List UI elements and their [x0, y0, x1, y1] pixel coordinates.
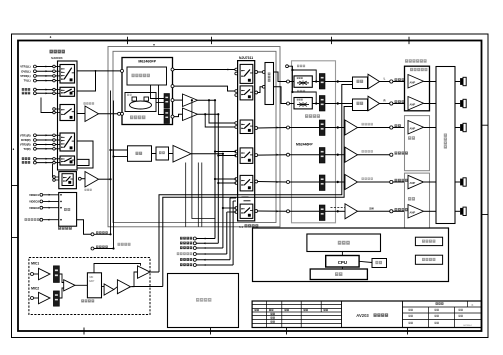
- svg-text:NJU7311: NJU7311: [239, 56, 253, 60]
- line amp op-amp: [368, 96, 380, 111]
- svg-text:AMP: AMP: [410, 103, 416, 107]
- wire riser 4 stub to SW6: [227, 211, 236, 213]
- electronic volume narrow box B inside M62460FP: [164, 109, 170, 124]
- CPU box: [326, 256, 359, 268]
- label pro-logic (Chinese): [132, 74, 150, 77]
- M62460FP output terminal 2: [171, 85, 174, 88]
- wire to SW4 upper: [215, 151, 236, 153]
- right margin fold mark: [482, 124, 489, 126]
- label spectrum analyzer: [422, 240, 435, 243]
- wire input to selector: [36, 134, 52, 136]
- output terminal: [390, 153, 393, 156]
- M62460FP output terminal 4: [171, 115, 174, 118]
- label electronic volume (Chinese gray): [305, 114, 320, 118]
- NJU7311 switch SW5: [240, 175, 253, 191]
- label matrix vertical: [268, 73, 271, 82]
- svg-text:VTR1(L): VTR1(L): [20, 65, 30, 69]
- label display (Chinese): [338, 241, 350, 245]
- remote receiver box: [415, 255, 442, 264]
- wire aux 4 to riser: [196, 253, 227, 255]
- wire to output terminal: [380, 103, 390, 105]
- wire mic2: [34, 297, 39, 299]
- bottom border centering tick: [286, 328, 288, 335]
- protection circuit box: [436, 67, 455, 224]
- delay BBD ellipse symbol: [130, 101, 152, 109]
- aux channel terminal 5: [180, 258, 192, 261]
- output label (Chinese): [395, 124, 401, 127]
- svg-text:MIC2: MIC2: [31, 286, 39, 290]
- svg-text:R: R: [383, 99, 385, 103]
- karaoke output op-amp: [138, 266, 151, 279]
- tone control box ch1: [294, 76, 312, 87]
- selector contact node: [53, 134, 56, 137]
- delay tap rect 1: [132, 97, 137, 101]
- aux channel terminal 1: [180, 237, 192, 240]
- title block left grid rows: [252, 304, 341, 306]
- tone glyph tiny text: [297, 99, 303, 101]
- display box: [307, 234, 381, 252]
- wire protection to speaker: [455, 181, 460, 183]
- wire vertical control line: [201, 163, 203, 227]
- top border centering tick: [408, 37, 410, 44]
- NJU7311 SW3 output terminal: [255, 127, 258, 130]
- label delay tiny: [127, 94, 132, 96]
- label monitor out: [96, 231, 108, 234]
- power supply box: [168, 274, 239, 328]
- top border centering tick: [211, 37, 213, 44]
- NJU7311 switch SW2: [240, 86, 253, 100]
- NJU7311 switch SW6: [240, 204, 253, 218]
- selector switch S6 outer box: [59, 172, 77, 189]
- wire U3b output to bus v2: [198, 113, 219, 115]
- tone control box ch2: [294, 98, 312, 109]
- node volume input ch3: [287, 126, 290, 129]
- svg-text:M62446FP: M62446FP: [296, 143, 313, 147]
- wire riser 6 stub: [233, 200, 236, 202]
- wire record-out vertical bus 2: [113, 101, 115, 249]
- op-amp buffer U2a: [77, 113, 85, 115]
- title block table: [252, 301, 481, 328]
- operate box: [372, 259, 387, 268]
- wire U4 output to bus v3: [191, 153, 223, 155]
- NJU7311 switch SW1: [240, 64, 253, 83]
- wire NJU SW6 to volume fader: [258, 210, 287, 212]
- line amp op-amp: [345, 120, 358, 135]
- wire amp to protection: [424, 103, 437, 105]
- aux channel terminal 4: [177, 252, 192, 255]
- wire fader2 to mix: [59, 288, 63, 298]
- wire video input: [43, 194, 59, 196]
- node volume input ch6: [287, 210, 290, 213]
- right margin fold mark 2: [482, 214, 489, 216]
- delay tap rect 2: [144, 97, 149, 101]
- NJU7311 SW1 output terminal: [255, 71, 258, 74]
- power amp AMP R: [408, 97, 424, 111]
- output terminal: [390, 102, 393, 105]
- electronic volume fader ch5: [319, 175, 325, 191]
- wire input to selector: [36, 80, 52, 82]
- tone ch2 bypass wire: [291, 91, 293, 93]
- wire U3a output to bus v1: [198, 99, 216, 101]
- output label (Chinese): [395, 179, 408, 182]
- mic2 pre-amp: [39, 292, 51, 304]
- speaker: [460, 178, 466, 186]
- wire record-out vertical bus 1: [110, 91, 112, 235]
- svg-text:DVD(R): DVD(R): [21, 138, 31, 142]
- op-amp U4: [173, 146, 191, 163]
- NJU7311 switch SW3: [240, 120, 253, 134]
- wire aux input to selector: [36, 162, 52, 164]
- wire volume out row y154.2: [325, 154, 337, 156]
- sheet inner border frame: [18, 41, 482, 332]
- wire input to selector: [36, 144, 52, 146]
- wire aux riser 6: [232, 201, 234, 265]
- power amp AMP SW: [408, 205, 424, 219]
- bottom border centering tick: [210, 328, 212, 335]
- keyboard box: [310, 269, 367, 280]
- dashed aux input to SW op-amp: [331, 207, 346, 209]
- wire aux 2 to riser: [196, 242, 218, 244]
- control section box: [253, 228, 449, 282]
- wire NJU SW4 to volume fader: [258, 154, 287, 156]
- svg-text:VIDEO3: VIDEO3: [29, 206, 39, 210]
- tone ch1 bypass wire: [291, 69, 293, 71]
- wire aux 5 to riser: [196, 259, 230, 261]
- wire CPU-keyboard: [341, 267, 343, 269]
- svg-text:AMP: AMP: [410, 181, 416, 185]
- wire label gray: [362, 150, 373, 153]
- selector contact node: [53, 70, 56, 73]
- wire to SW5 upper: [215, 178, 236, 180]
- electronic volume fader ch4: [319, 148, 325, 164]
- selector contact node: [53, 148, 56, 151]
- bottom border centering tick: [407, 328, 409, 335]
- title block right texts: [436, 302, 444, 305]
- selector contact node: [53, 139, 56, 142]
- NJU7311 switch array box: [238, 61, 255, 221]
- monitor output terminal: [91, 233, 94, 236]
- svg-text:VIDEO2: VIDEO2: [29, 200, 39, 204]
- wire logic block to volume B: [159, 85, 165, 115]
- wire aux riser 4: [226, 212, 228, 254]
- label operate: [375, 261, 382, 264]
- wire to power amp: [393, 81, 405, 83]
- wire bus between channels: [292, 70, 294, 92]
- tone bowtie glyph: [297, 82, 309, 84]
- wire branch to NJU S3 upper: [209, 100, 236, 123]
- wire M62460 out4 to op-amp U3b: [174, 114, 183, 116]
- M62460FP input terminal 1: [121, 69, 124, 72]
- svg-text:VTR1(R): VTR1(R): [20, 133, 31, 137]
- electronic volume fader ch1: [319, 74, 325, 90]
- electronic volume fader ch2: [319, 96, 325, 112]
- wire volume out row y103: [325, 103, 337, 105]
- label channel tiny: [297, 65, 305, 67]
- svg-text:AV203: AV203: [356, 313, 369, 318]
- wire matrix out R: [274, 87, 287, 104]
- NJU7311 SW4 output terminal: [255, 154, 258, 157]
- power amp box B center (gray): [405, 116, 430, 171]
- svg-text:SW: SW: [369, 207, 374, 211]
- left margin fold mark: [12, 185, 19, 187]
- wire matrix out L: [274, 72, 287, 82]
- label protection circuit vertical: [444, 134, 447, 149]
- wire NJU SW5 to volume fader: [258, 181, 287, 184]
- label video-select (Chinese): [58, 227, 72, 230]
- wire aux input to selector: [36, 92, 52, 94]
- wire record-out to bus: [94, 248, 114, 250]
- S3 contact node B: [53, 111, 56, 114]
- NJU7311 SW2 output terminal: [255, 91, 258, 94]
- label buffer amp (gray): [84, 102, 95, 104]
- wire loop S4 output to S6: [77, 141, 93, 168]
- tone glyph tiny text: [297, 77, 303, 79]
- wire karaoke R feed: [163, 107, 353, 287]
- wire video monitor out: [77, 220, 91, 235]
- bypass feed terminal: [286, 65, 289, 68]
- echo processor box: [87, 273, 101, 298]
- speaker: [460, 77, 466, 85]
- M62460FP output terminal 3: [171, 99, 174, 102]
- svg-text:VTR2(L): VTR2(L): [20, 74, 30, 78]
- output terminal: [390, 180, 393, 183]
- label power supply (Chinese): [196, 298, 211, 302]
- wire input to selector: [36, 148, 52, 150]
- selector switch S1: [60, 65, 75, 84]
- mixer box: [353, 99, 368, 111]
- main board enclosure inner box: [113, 51, 276, 222]
- wire M62460 out1 to NJU7311 S1: [174, 69, 236, 71]
- input terminal aux (Chinese label): [22, 157, 30, 160]
- svg-text:NJM2068: NJM2068: [51, 56, 63, 60]
- selector switch S6 inner box: [62, 174, 73, 186]
- left margin fold mark 2: [12, 237, 19, 239]
- wire protection to speaker: [455, 210, 460, 212]
- wire branch to NJU S3 lower: [205, 114, 236, 127]
- aux channel terminal 2: [180, 242, 192, 245]
- wire video input: [43, 200, 59, 202]
- wire karaoke out R: [132, 286, 163, 288]
- label channel tiny: [297, 90, 305, 92]
- output terminal: [390, 80, 393, 83]
- wire to power amp: [393, 127, 405, 129]
- wire aux 1 to riser: [196, 238, 215, 240]
- node volume input ch5: [287, 181, 290, 184]
- selector switch S4: [60, 133, 75, 151]
- electronic volume fader ch6: [319, 205, 325, 221]
- electronic volume narrow box A inside M62460FP: [164, 94, 170, 109]
- wire tone L to volume: [290, 81, 295, 83]
- wire to SW5 lower: [218, 182, 236, 184]
- selector contact node: [53, 88, 56, 91]
- label center amp: [408, 136, 415, 139]
- wire NJU SW3 to volume fader: [258, 127, 287, 130]
- svg-text:L: L: [384, 77, 386, 81]
- power amp box C surround (gray): [405, 173, 430, 228]
- label video (inside box): [64, 208, 70, 211]
- wire amp2 to out amp: [131, 272, 138, 287]
- output terminal: [390, 210, 393, 213]
- label dolby decode (Chinese gray): [130, 116, 145, 120]
- svg-text:VTR2(R): VTR2(R): [20, 143, 31, 147]
- mixer block box: [128, 146, 152, 162]
- NJU7311 continuation dashes: [242, 196, 249, 198]
- label main channel amp: [410, 68, 427, 71]
- wire to output terminal: [358, 127, 390, 129]
- pro-logic block inside M62460FP: [127, 67, 167, 85]
- label audio output (gray): [118, 243, 131, 246]
- wire to SW4 lower: [218, 155, 236, 157]
- output terminal: [390, 126, 393, 129]
- power amp AMP C: [408, 121, 424, 135]
- wire fader1 to mix: [59, 274, 63, 283]
- label mixer (Chinese): [136, 152, 143, 155]
- wire video input: [43, 219, 59, 221]
- wire aux riser 1: [214, 100, 216, 238]
- label eq tiny: [159, 151, 165, 154]
- M62460FP surround decoder IC box: [122, 58, 173, 125]
- wire buffer U2b output: [99, 178, 111, 180]
- aux channel terminal 6: [180, 263, 192, 266]
- selector contact node: [53, 158, 56, 161]
- svg-text:M62460FP: M62460FP: [138, 59, 156, 63]
- input terminal aux (Chinese label): [22, 161, 30, 164]
- node volume input ch4: [287, 153, 290, 156]
- wire karaoke out L: [150, 271, 159, 273]
- wire to output terminal: [380, 81, 390, 83]
- svg-text:AMP: AMP: [410, 127, 416, 131]
- wire to power amp: [393, 210, 405, 212]
- wire long branch from U3a to lower area: [191, 99, 193, 101]
- svg-text:MN: MN: [90, 276, 94, 279]
- wire volume out row y181.5: [325, 181, 337, 183]
- wire to output terminal: [358, 154, 390, 156]
- M62446FP electronic volume IC box (gray): [292, 61, 336, 223]
- mixer box: [353, 77, 368, 89]
- wire amp to protection: [424, 81, 437, 83]
- svg-text:3207: 3207: [89, 280, 95, 283]
- output label (Chinese): [395, 208, 408, 211]
- wire karaoke L feed: [159, 85, 353, 273]
- wire to power amp: [393, 103, 405, 105]
- output label (Chinese): [395, 100, 405, 103]
- power amp AMP SL: [408, 175, 424, 189]
- wire vertical control line: [197, 163, 199, 227]
- mic1 fader: [53, 266, 59, 283]
- wire logic block to volume A: [151, 85, 165, 99]
- MIC2 jack: [31, 297, 34, 300]
- tone bowtie glyph: [297, 104, 309, 106]
- selector contact node: [53, 65, 56, 68]
- label remote receiver: [422, 258, 435, 261]
- input terminal aux (Chinese label): [22, 92, 30, 95]
- wire top echo bypass: [94, 264, 141, 273]
- power amp box A main channels: [405, 66, 430, 111]
- svg-text:TV(R): TV(R): [23, 147, 30, 151]
- wire input to selector: [36, 66, 52, 68]
- S6 input contact node A: [53, 176, 56, 179]
- wire tape-loop left into S6: [52, 164, 54, 177]
- wire aux riser 5: [229, 198, 231, 260]
- input terminal aux (Chinese label): [22, 88, 30, 91]
- output label (Chinese): [395, 152, 408, 155]
- wire amp to protection: [424, 127, 437, 129]
- wire M62460 out2 to NJU7311 S2: [174, 86, 236, 91]
- aux channel terminal 3: [180, 246, 192, 249]
- wire aux 6 to riser: [196, 264, 233, 266]
- title block left grid columns: [266, 301, 268, 328]
- S6 input contact node B: [53, 179, 56, 182]
- selector switch S3: [60, 105, 75, 121]
- label record out: [96, 246, 108, 249]
- wire aux 3 to riser: [196, 247, 223, 249]
- wire to power amp: [393, 181, 405, 183]
- M62460FP input terminal 2: [121, 112, 124, 115]
- wire to output terminal: [358, 210, 390, 212]
- input selector IC box: [58, 61, 78, 170]
- top border centering tick: [127, 37, 129, 44]
- wire mix to echo: [75, 284, 87, 286]
- wire input to selector: [36, 75, 52, 77]
- selector contact node: [53, 92, 56, 95]
- karaoke amp1: [104, 284, 114, 295]
- wire mixer to eq: [152, 153, 157, 155]
- svg-text:5.1: 5.1: [239, 225, 244, 229]
- selector switch S5: [60, 156, 75, 165]
- label surround amp: [408, 197, 415, 200]
- wire delay to volume: [156, 102, 164, 104]
- wire video input: [43, 207, 59, 209]
- selector contact node: [53, 75, 56, 78]
- svg-text:K: K: [472, 303, 474, 307]
- wire protection to speaker: [455, 127, 460, 129]
- wire input to selector: [36, 70, 52, 72]
- NJU7311 SW5 output terminal: [255, 180, 258, 183]
- wire echo to amp1: [102, 286, 105, 288]
- top border centering tick: [331, 37, 333, 44]
- label karaoke echo (Chinese): [81, 299, 94, 302]
- wire M62460 out3 to op-amp U3a: [174, 99, 183, 101]
- selector contact node: [53, 143, 56, 146]
- svg-text:CPU: CPU: [338, 260, 347, 265]
- wire volume out row y210.8: [325, 210, 337, 212]
- selector contact node: [53, 161, 56, 164]
- selector switch S2: [60, 87, 75, 96]
- op-amp U3b surround: [183, 108, 198, 121]
- MIC1 jack: [31, 273, 34, 276]
- line amp op-amp: [345, 175, 358, 190]
- svg-text:MIC1: MIC1: [31, 261, 39, 265]
- wire aux riser 2: [217, 114, 219, 243]
- speaker: [460, 99, 466, 107]
- border reference dot: [50, 36, 51, 37]
- line amp op-amp: [368, 74, 380, 89]
- wire to output terminal: [358, 181, 390, 183]
- spectrum analyzer box: [415, 237, 442, 245]
- wire volume out row y127: [325, 127, 337, 129]
- wire input 2 to mixer row: [114, 156, 128, 158]
- power amp AMP L: [408, 75, 424, 89]
- op-amp buffer U2b: [81, 178, 85, 180]
- wire input to selector: [36, 139, 52, 141]
- op-amp U3a surround: [183, 94, 198, 107]
- video input terminal 4: [25, 218, 40, 221]
- wire aux input to selector: [36, 158, 52, 160]
- main board enclosure outer box: [108, 47, 280, 227]
- wire volume out row y81: [325, 81, 337, 83]
- mic2 fader: [53, 291, 59, 306]
- mic1 pre-amp: [39, 268, 51, 280]
